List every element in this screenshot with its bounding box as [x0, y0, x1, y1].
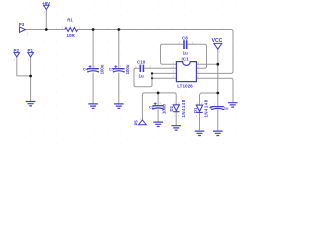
- svg-text:100u: 100u: [125, 64, 130, 74]
- svg-text:1u: 1u: [224, 106, 229, 111]
- svg-text:D2: D2: [169, 105, 174, 111]
- svg-text:P5: P5: [134, 120, 139, 126]
- svg-text:P2: P2: [14, 48, 20, 53]
- svg-text:C8: C8: [182, 36, 188, 41]
- svg-text:100u: 100u: [162, 104, 167, 114]
- svg-text:VCC: VCC: [212, 38, 223, 44]
- svg-text:+9V: +9V: [42, 1, 50, 6]
- svg-text:10R: 10R: [67, 33, 76, 38]
- svg-text:1N4148: 1N4148: [204, 99, 209, 117]
- svg-text:C2: C2: [149, 105, 155, 110]
- svg-text:C5: C5: [109, 67, 115, 72]
- svg-text:R1: R1: [67, 18, 73, 23]
- svg-text:C4: C4: [83, 67, 89, 72]
- svg-text:LT1026: LT1026: [177, 84, 193, 89]
- svg-text:P3: P3: [19, 22, 25, 27]
- svg-text:1u: 1u: [183, 50, 189, 55]
- svg-text:1u: 1u: [139, 73, 145, 78]
- svg-text:C10: C10: [137, 59, 146, 64]
- svg-text:D1: D1: [193, 107, 198, 113]
- svg-text:IC1: IC1: [182, 56, 190, 61]
- svg-text:1N4148: 1N4148: [181, 99, 186, 117]
- svg-text:P1: P1: [28, 48, 34, 53]
- svg-text:100u: 100u: [99, 64, 104, 74]
